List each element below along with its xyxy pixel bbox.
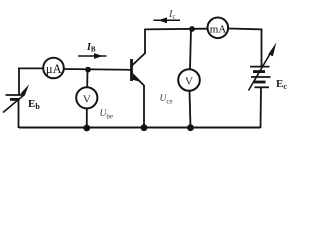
- wire: left vertical (E_b branch, bottom segment): [18, 100, 20, 129]
- wire: junction down to voltmeter Ube: [86, 70, 88, 87]
- node: top rail junction dot: [189, 26, 195, 32]
- wire: top rail: [144, 28, 207, 31]
- wire: microammeter to base node: [64, 68, 131, 71]
- transistor Q (NPN): [132, 53, 146, 86]
- svg-text:V: V: [83, 93, 91, 105]
- wire: emitter down to bottom rail: [143, 85, 145, 128]
- wire: milliammeter to right corner: [229, 28, 262, 31]
- svg-text:V: V: [185, 76, 193, 88]
- wire: top-left horizontal to microammeter: [18, 67, 43, 69]
- wire: right vertical (E_c branch, top segment): [261, 29, 263, 67]
- battery Eb (variable source, two plates): [6, 95, 25, 99]
- microammeter uA: [43, 58, 64, 79]
- svg-text:μA: μA: [46, 62, 62, 76]
- node: base junction dot: [85, 67, 91, 73]
- node: dot on rail under Ube: [83, 125, 90, 132]
- wire: bottom rail: [19, 127, 261, 129]
- arrow: variability arrow across Eb: [3, 85, 29, 113]
- node: dot on rail under emitter: [141, 124, 148, 131]
- wire: voltmeter Ube to bottom rail: [86, 109, 88, 128]
- wire: voltmeter Uce to bottom rail: [190, 91, 191, 128]
- node: dot on rail under Uce: [187, 124, 194, 131]
- arrow: variability arrow across Ec: [249, 43, 277, 91]
- voltmeter V (Ube): [76, 87, 97, 108]
- label IC with arrow: [154, 9, 181, 23]
- svg-text:mA: mA: [210, 24, 227, 36]
- wire: left vertical (E_b branch, top segment): [18, 68, 20, 96]
- label IB with arrow: [78, 42, 107, 59]
- wire: right vertical (E_c branch, bottom segment): [260, 88, 263, 129]
- voltmeter V (Uce): [178, 69, 200, 91]
- milliammeter mA: [208, 18, 229, 39]
- battery Ec (variable multicell source, five plates): [250, 67, 271, 88]
- wire: junction down to voltmeter Uce: [190, 29, 191, 69]
- wire: collector up to top rail: [144, 29, 146, 54]
